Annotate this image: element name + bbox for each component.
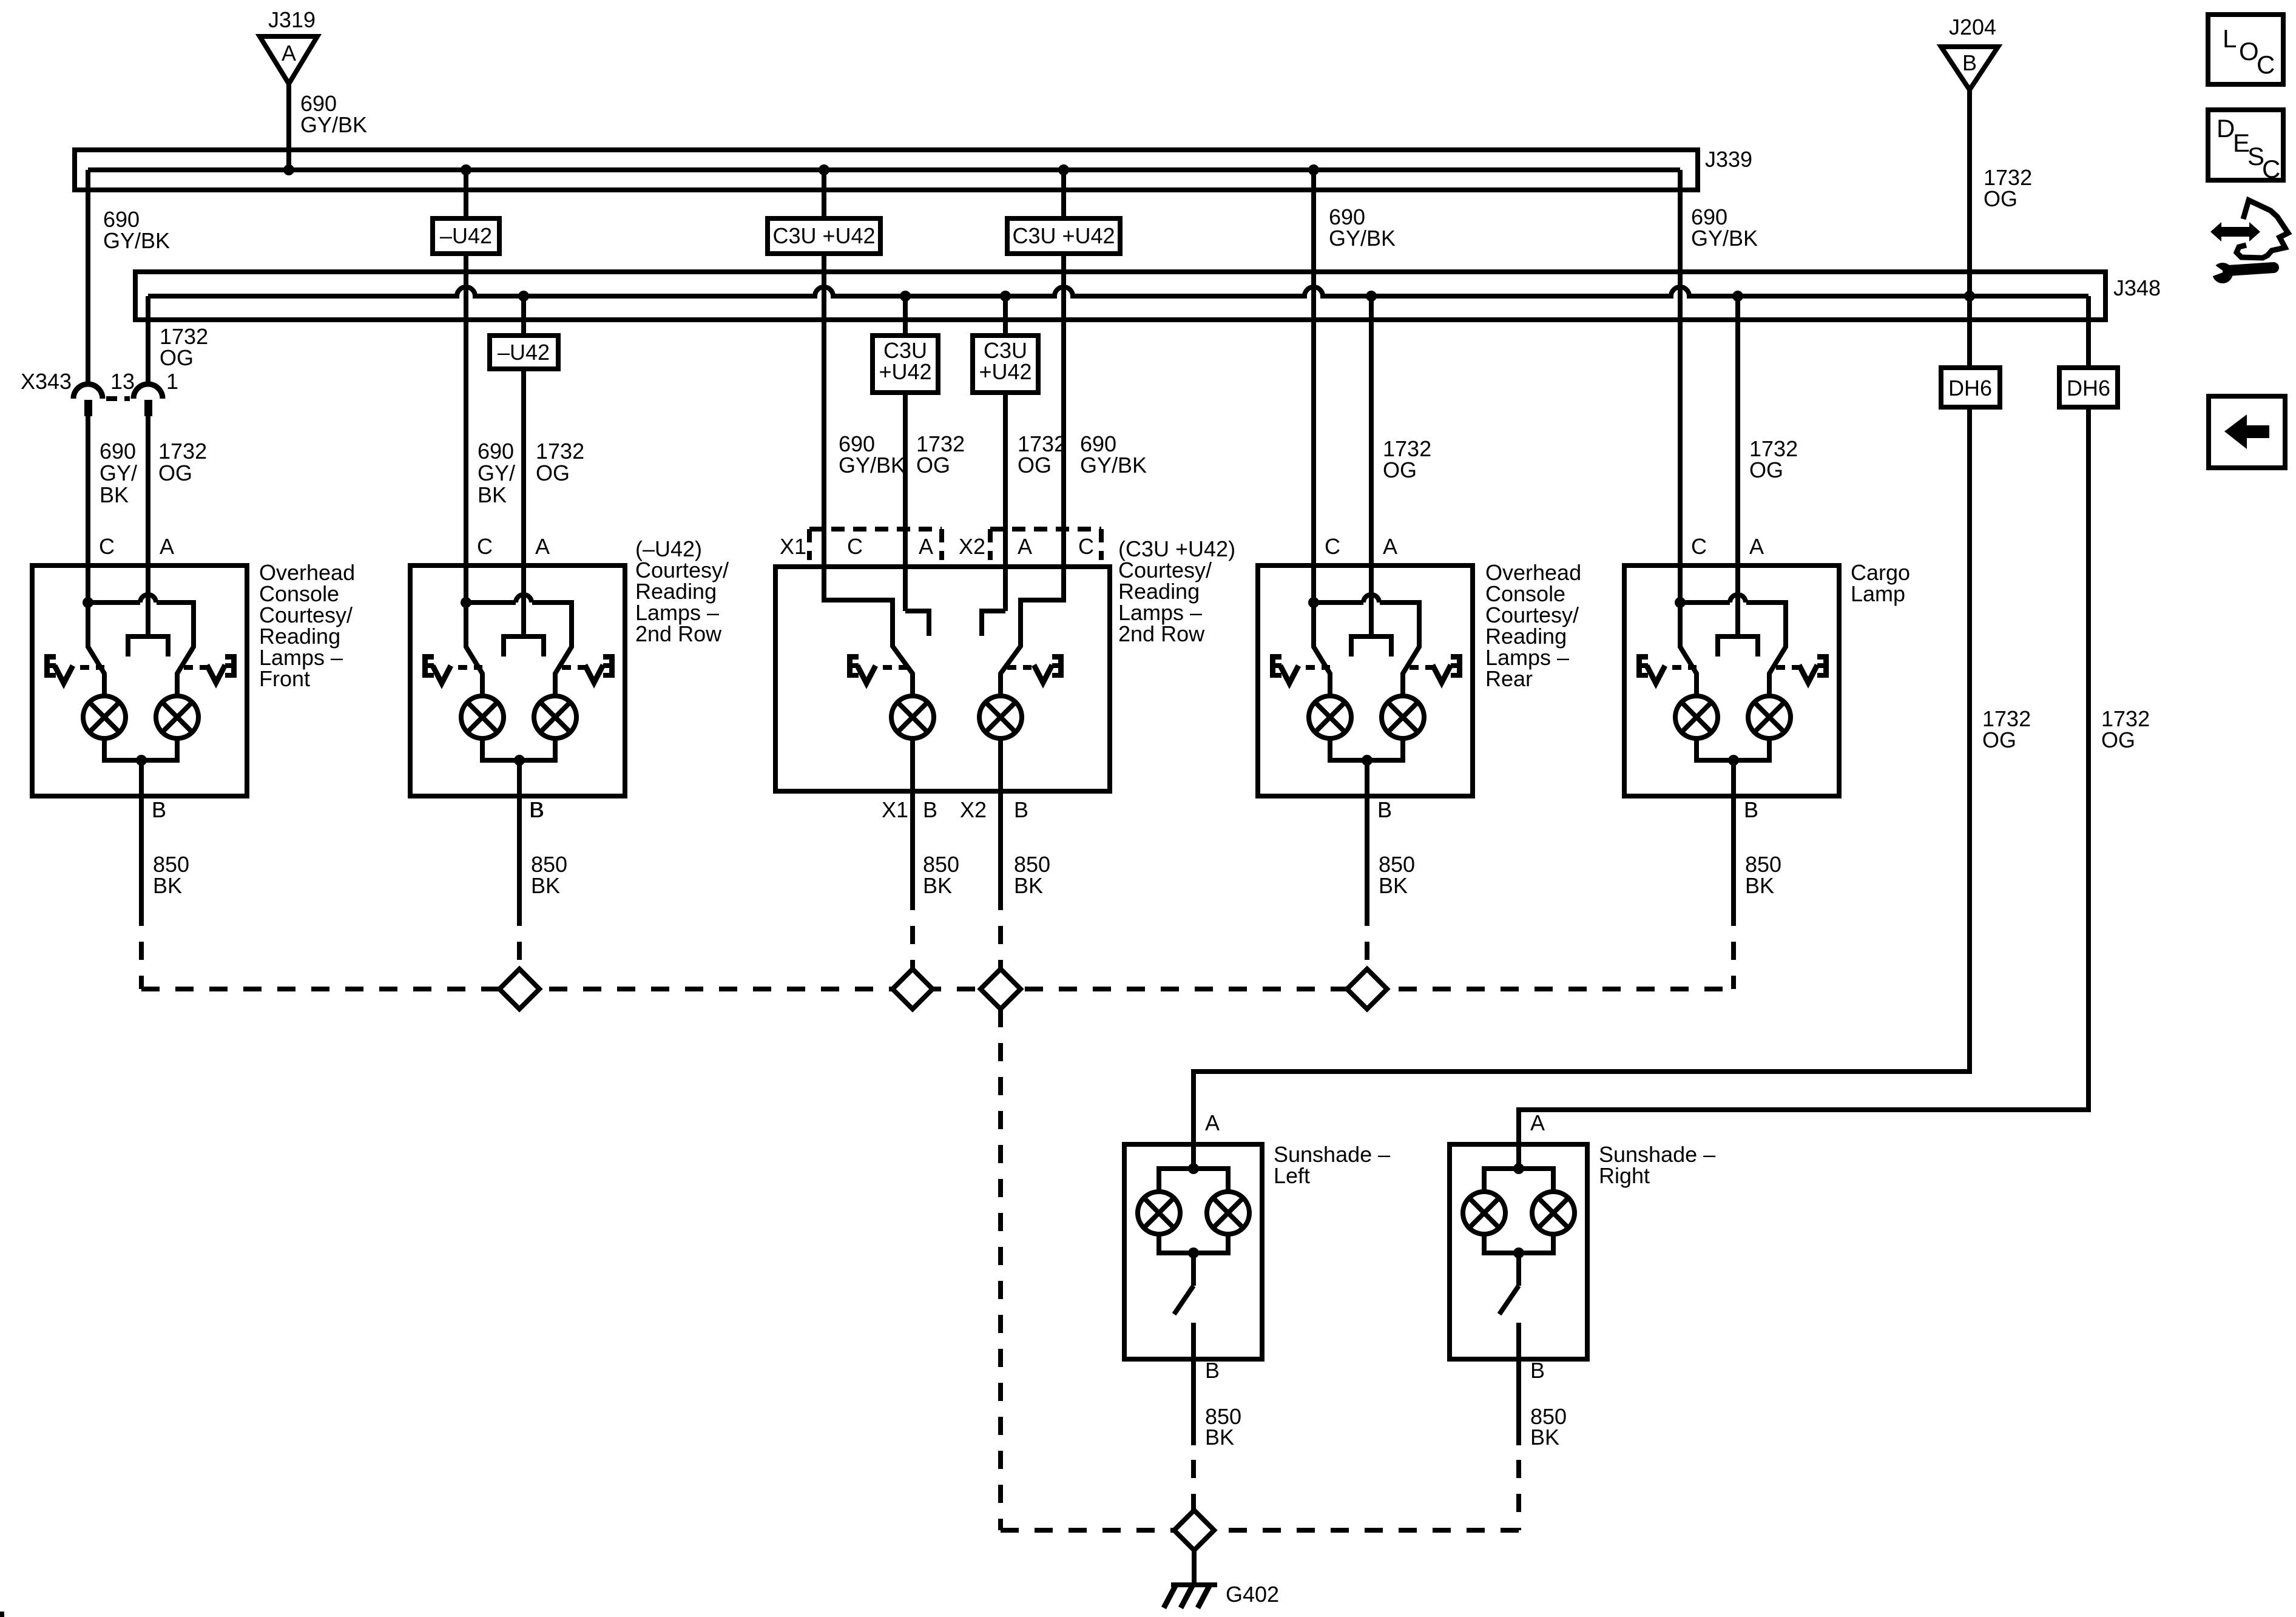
- sunshade right ground wire 850 BK: [1519, 1359, 1567, 1450]
- svg-text:BK: BK: [100, 482, 129, 507]
- svg-text:B: B: [923, 797, 937, 822]
- ground splice diamond above G402: [1174, 1510, 1214, 1550]
- cargo lamp lamp return wiring to pin B: [1697, 738, 1769, 796]
- sunshade left component box: [1124, 1144, 1262, 1359]
- svg-text:BK: BK: [531, 873, 560, 898]
- wire 1732 OG from J348 to connector X343 pin 1: [146, 296, 150, 385]
- overhead console courtesy/reading lamps rear lamp return wiring to pin B: [1330, 738, 1403, 796]
- ground wires 850 BK from X1 X2: [913, 791, 959, 898]
- sunshade left ground wire 850 BK: [1194, 1359, 1241, 1450]
- component label sunshade right: [1599, 1142, 1715, 1188]
- option label box -U42 (lower): [490, 336, 558, 369]
- svg-text:B: B: [1377, 797, 1392, 822]
- overhead console courtesy/reading lamps front right switch actuator icon: [184, 654, 237, 683]
- svg-text:DH6: DH6: [1948, 376, 1992, 400]
- courtesy/reading lamps 2nd row (-U42) internal C branch wiring: [461, 565, 572, 696]
- svg-text:A: A: [919, 534, 933, 559]
- svg-text:BK: BK: [153, 873, 182, 898]
- label J348: [2113, 275, 2161, 300]
- left actuator icon: [847, 654, 907, 683]
- junction on J348 bus at x=2864: [1732, 291, 1743, 302]
- overhead console courtesy/reading lamps rear right lamp: [1382, 696, 1424, 738]
- label J204: [1949, 15, 1996, 39]
- wire 690 GY/BK from J339 through -U42 option box to 2nd row lamp pin C: [464, 170, 468, 565]
- courtesy/reading lamps 2nd row (-U42) component box: [410, 565, 625, 796]
- svg-text:OG: OG: [1383, 457, 1417, 482]
- wire label 1732 OG (sunshade left feed): [1982, 706, 2031, 752]
- overhead console courtesy/reading lamps rear internal A feed bar: [1351, 565, 1391, 657]
- svg-text:OG: OG: [2101, 727, 2135, 752]
- overhead console courtesy/reading lamps front left switch actuator icon: [44, 654, 104, 683]
- X2 C branch wiring and switch: [1001, 567, 1064, 696]
- dashed ground drop 2nd row: [517, 908, 522, 969]
- ground splice diamond at x=1649: [981, 969, 1021, 1009]
- svg-text:OG: OG: [160, 345, 194, 370]
- svg-text:GY/BK: GY/BK: [839, 453, 905, 478]
- cargo lamp component box: [1624, 565, 1839, 796]
- svg-text:X2: X2: [959, 534, 985, 559]
- wire label 690 GY/BK (left drop): [103, 207, 170, 253]
- power feed triangle J204 (circuit B): [1941, 47, 1998, 90]
- LOC navigation icon: [2208, 15, 2283, 84]
- svg-text:BK: BK: [1379, 873, 1408, 898]
- courtesy/reading lamps 2nd row (-U42) left switch actuator icon: [422, 654, 482, 683]
- harness label box DH6 (right): [2059, 368, 2118, 407]
- wire 1732 OG from J348 through C3U +U42 option box at x=1492: [903, 296, 908, 611]
- svg-text:A: A: [282, 41, 296, 66]
- svg-text:OG: OG: [1982, 727, 2016, 752]
- cargo lamp left lamp: [1675, 696, 1718, 738]
- svg-text:Rear: Rear: [1485, 666, 1533, 691]
- dashed ground run from splice to G402 bus: [1001, 1009, 1174, 1530]
- courtesy/reading lamps 2nd row (-U42) right switch actuator icon: [562, 654, 615, 683]
- svg-text:GY/: GY/: [100, 461, 137, 485]
- svg-text:L: L: [2223, 24, 2237, 53]
- wire 1732 OG from J348 through DH6 to sunshade left: [1194, 296, 1970, 1144]
- svg-text:C: C: [847, 534, 863, 559]
- sunshade right component box: [1450, 1144, 1587, 1359]
- component label Overhead Console Courtesy/Reading Lamps - Front: [259, 560, 355, 691]
- svg-text:B: B: [1530, 1358, 1545, 1383]
- svg-text:BK: BK: [923, 873, 952, 898]
- wire label 1732 OG (2nd row drop): [536, 439, 584, 485]
- cargo lamp pin letters C A: [1691, 534, 1764, 559]
- svg-text:C: C: [2262, 155, 2280, 183]
- wire 690 GY/BK from J339 through C3U +U42 option box at x=1753: [1061, 170, 1066, 567]
- svg-text:A: A: [1749, 534, 1764, 559]
- wire 690 GY/BK from J339 to connector X343 pin 13: [86, 170, 90, 385]
- svg-text:C: C: [1078, 534, 1094, 559]
- connector labels X343 13 1: [21, 369, 178, 394]
- wire 1732 OG from J348 through C3U +U42 option box at x=1657: [1003, 296, 1008, 611]
- overhead console courtesy/reading lamps rear left lamp: [1309, 696, 1351, 738]
- svg-text:B: B: [529, 797, 544, 822]
- overhead console courtesy/reading lamps front pin letter B: [152, 797, 166, 822]
- wire 1732 OG from J348 through -U42 option box to 2nd row lamp pin A: [521, 296, 526, 565]
- wire label 1732 OG (X343 pin 1): [160, 324, 208, 370]
- svg-text:BK: BK: [1205, 1425, 1234, 1450]
- svg-text:1732: 1732: [158, 439, 207, 464]
- overhead console courtesy/reading lamps front left lamp: [83, 696, 126, 738]
- wire 1732 OG from J204 to J348: [1967, 90, 1972, 296]
- svg-text:C3U +U42: C3U +U42: [1012, 223, 1115, 248]
- X1 C branch wiring and switch: [824, 567, 913, 696]
- svg-text:A: A: [1205, 1110, 1220, 1135]
- label J319: [268, 7, 316, 32]
- svg-text:OG: OG: [1018, 453, 1052, 478]
- 2nd row lamps component box (C3U +U42): [775, 567, 1110, 791]
- svg-text:690: 690: [478, 439, 514, 464]
- wire label 690 GY/ BK (2nd row drop): [478, 439, 515, 507]
- wire 1732 OG from J348 right end through DH6 to sunshade right: [1519, 296, 2088, 1144]
- svg-text:Left: Left: [1274, 1163, 1310, 1188]
- svg-text:+U42: +U42: [979, 359, 1032, 384]
- svg-text:1732: 1732: [536, 439, 584, 464]
- junction on J348 bus at x=863: [518, 291, 529, 302]
- option label box -U42 (upper): [433, 218, 499, 254]
- svg-text:Lamp: Lamp: [1851, 581, 1905, 606]
- sunshade right left lamp: [1463, 1192, 1505, 1234]
- courtesy/reading lamps 2nd row (-U42) right lamp: [534, 696, 576, 738]
- wire 690 GY/BK X343 to lamp front pin C: [86, 416, 90, 565]
- svg-text:OG: OG: [1749, 457, 1783, 482]
- svg-text:X1: X1: [882, 797, 908, 822]
- label J339: [1705, 147, 1752, 172]
- svg-text:BK: BK: [1014, 873, 1043, 898]
- svg-text:BK: BK: [1745, 873, 1774, 898]
- svg-text:X2: X2: [960, 797, 987, 822]
- svg-text:–U42: –U42: [498, 340, 550, 365]
- component label (C3U +U42) Courtesy/Reading Lamps - 2nd Row: [1118, 536, 1235, 646]
- courtesy/reading lamps 2nd row (-U42) internal A feed bar: [504, 565, 544, 657]
- svg-text:J204: J204: [1949, 15, 1996, 39]
- svg-text:B: B: [1962, 50, 1977, 75]
- junction on J339 bus at x=768: [461, 164, 471, 175]
- wire 690 GY/BK from J339 to rear lamp pin C: [1311, 170, 1316, 565]
- ground wire 850 BK from front lamps pin B: [141, 796, 189, 908]
- option label box C3U +U42: [1007, 218, 1120, 254]
- wire 690 GY/BK from J339 right end to cargo lamp pin C: [1678, 170, 1683, 565]
- svg-text:C: C: [477, 534, 493, 559]
- svg-text:C: C: [1691, 534, 1707, 559]
- X1 A feed hook: [905, 611, 929, 636]
- svg-text:A: A: [1018, 534, 1032, 559]
- wire 690 GY/BK from J339 through C3U +U42 option box at x=1358: [822, 170, 826, 567]
- cargo lamp pin letter B: [1744, 797, 1758, 822]
- splice pack J339 outer housing: [75, 150, 1698, 190]
- svg-text:OG: OG: [158, 461, 192, 485]
- dashed connector bracket X2: [990, 529, 1101, 560]
- svg-text:X1: X1: [780, 534, 806, 559]
- component label Overhead Console Courtesy/Reading Lamps - Rear: [1485, 560, 1581, 691]
- svg-text:C: C: [99, 534, 115, 559]
- wire label 1732 OG: [158, 439, 207, 485]
- svg-text:GY/BK: GY/BK: [300, 112, 367, 137]
- splice pack J348 internal bus bar (with wire hops): [148, 287, 2088, 296]
- back arrow icon: [2209, 396, 2285, 468]
- junction on J348 bus at x=1492: [900, 291, 911, 302]
- svg-text:–U42: –U42: [440, 223, 492, 248]
- junction on J348 bus at x=2260: [1366, 291, 1377, 302]
- overhead console courtesy/reading lamps rear component box: [1258, 565, 1473, 796]
- overhead console courtesy/reading lamps rear pin letter B: [1377, 797, 1392, 822]
- dashed ground path from front lamp: [139, 908, 144, 989]
- svg-text:OG: OG: [1984, 186, 2017, 211]
- ground wire 850 BK from 2nd row lamp pin B: [519, 796, 567, 908]
- sunshade right right lamp: [1532, 1192, 1575, 1234]
- option label box C3U +U42: [768, 218, 880, 254]
- harness label box DH6 (left): [1941, 368, 2000, 407]
- overhead console courtesy/reading lamps front component box: [32, 565, 247, 796]
- svg-text:B: B: [1744, 797, 1758, 822]
- sunshade right door switch: [1499, 1286, 1519, 1359]
- sunshade left door switch: [1174, 1286, 1194, 1359]
- component label sunshade left: [1274, 1142, 1390, 1188]
- svg-text:OG: OG: [916, 453, 950, 478]
- dashed ground drops X1 X2: [913, 892, 1001, 969]
- wire label 690 GY/BK (cargo drop): [1691, 204, 1758, 251]
- option label box C3U +U42 (two line): [873, 336, 938, 393]
- svg-text:D: D: [2217, 114, 2235, 143]
- wire label 1732 OG (J204 drop): [1984, 165, 2032, 211]
- junction on J339 bus at x=1753: [1058, 164, 1069, 175]
- wire label 1732 OG (sunshade right feed): [2101, 706, 2150, 752]
- dashed ground drop sunshade right: [1214, 1460, 1519, 1530]
- X1 lamp: [891, 696, 934, 738]
- svg-text:B: B: [1205, 1358, 1220, 1383]
- junction on J348 bus at x=3246: [1964, 291, 1975, 302]
- svg-text:A: A: [535, 534, 550, 559]
- option label box C3U +U42 (two line): [973, 336, 1038, 393]
- ground splice diamond at x=2253: [1347, 969, 1387, 1009]
- courtesy/reading lamps 2nd row (-U42) pin letters C A: [477, 534, 550, 559]
- wire from J319 to splice pack J339: [286, 84, 291, 170]
- sunshade left lamp rail wiring: [1159, 1144, 1228, 1286]
- overhead console courtesy/reading lamps front right lamp: [156, 696, 198, 738]
- svg-text:B: B: [1014, 797, 1028, 822]
- X2 A feed hook: [982, 611, 1005, 636]
- svg-text:B: B: [152, 797, 166, 822]
- dashed ground bus: [141, 987, 1734, 991]
- cargo lamp left switch actuator icon: [1636, 654, 1697, 683]
- svg-text:+U42: +U42: [879, 359, 931, 384]
- ground splice diamond at x=1504: [893, 969, 933, 1009]
- svg-text:Front: Front: [259, 666, 310, 691]
- X1 lamp return to pin B: [910, 738, 915, 791]
- svg-text:J339: J339: [1705, 147, 1752, 172]
- component label (-U42) Courtesy/Reading Lamps - 2nd Row: [635, 536, 729, 646]
- ground splice diamond at x=856: [499, 969, 539, 1009]
- sunshade right pin letters: [1530, 1110, 1545, 1383]
- sunshade left pin letters: [1205, 1110, 1220, 1383]
- svg-text:A: A: [160, 534, 174, 559]
- sunshade right lamp rail wiring: [1484, 1144, 1553, 1286]
- svg-text:1: 1: [166, 369, 178, 394]
- svg-text:G402: G402: [1226, 1582, 1279, 1607]
- overhead console courtesy/reading lamps front internal A feed bar: [128, 565, 168, 657]
- svg-text:C: C: [1325, 534, 1340, 559]
- svg-text:GY/BK: GY/BK: [1080, 453, 1147, 478]
- pin letters X1 C A X2 A C: [780, 534, 1094, 559]
- overhead console courtesy/reading lamps rear right switch actuator icon: [1410, 654, 1462, 683]
- svg-text:C3U +U42: C3U +U42: [772, 223, 875, 248]
- svg-text:O: O: [2239, 37, 2259, 66]
- wire label 690 GY/BK (rear drop): [1329, 204, 1396, 251]
- overhead console courtesy/reading lamps front internal C branch wiring: [83, 565, 194, 696]
- junction on J339 bus at x=476: [283, 164, 294, 175]
- overhead console courtesy/reading lamps rear left switch actuator icon: [1270, 654, 1330, 683]
- courtesy/reading lamps 2nd row (-U42) left lamp: [461, 696, 504, 738]
- overhead console courtesy/reading lamps rear pin letters C A: [1325, 534, 1397, 559]
- svg-text:C: C: [2257, 50, 2275, 79]
- component label Cargo Lamp: [1851, 560, 1910, 606]
- ground wire 850 BK from rear lamp pin B: [1367, 796, 1415, 908]
- overhead console courtesy/reading lamps front lamp return wiring to pin B: [104, 738, 177, 796]
- wire label 1732 OG (cargo drop): [1749, 436, 1798, 482]
- overhead console courtesy/reading lamps front pin letters C A: [99, 534, 174, 559]
- wire labels middle drops: [839, 431, 905, 478]
- svg-text:GY/BK: GY/BK: [1329, 226, 1396, 251]
- svg-text:A: A: [1530, 1110, 1545, 1135]
- svg-text:DH6: DH6: [2067, 376, 2110, 400]
- wire 1732 OG X343 to lamp front pin A: [146, 416, 150, 565]
- svg-text:BK: BK: [1530, 1425, 1559, 1450]
- wire 1732 OG from J348 to cargo lamp pin A: [1735, 296, 1740, 565]
- cargo lamp right lamp: [1748, 696, 1791, 738]
- svg-text:J348: J348: [2113, 275, 2161, 300]
- svg-text:2nd Row: 2nd Row: [635, 621, 722, 646]
- svg-text:13: 13: [110, 369, 135, 394]
- svg-text:OG: OG: [536, 461, 570, 485]
- connector X343 halves: [73, 384, 163, 416]
- svg-text:X343: X343: [21, 369, 72, 394]
- courtesy/reading lamps 2nd row (-U42) pin letter B: [530, 797, 544, 822]
- courtesy/reading lamps 2nd row (-U42) lamp return wiring to pin B: [482, 738, 555, 796]
- sunshade left right lamp: [1207, 1192, 1249, 1234]
- cargo lamp internal A feed bar: [1718, 565, 1758, 657]
- wire 1732 OG from J348 to rear lamp pin A: [1369, 296, 1374, 565]
- connector-view / repair icon (double arrow, outline, wrench): [2208, 200, 2288, 283]
- svg-text:GY/BK: GY/BK: [1691, 226, 1758, 251]
- overhead console courtesy/reading lamps rear internal C branch wiring: [1308, 565, 1419, 696]
- page corner mark: [0, 1612, 4, 1617]
- svg-text:Right: Right: [1599, 1163, 1650, 1188]
- splice pack J339 internal bus bar: [88, 167, 1680, 172]
- bottom pin letters X1 B X2 B: [882, 797, 1028, 822]
- junction on J348 bus at x=1657: [1000, 291, 1011, 302]
- ground G402: [1164, 1550, 1217, 1608]
- cargo lamp internal C branch wiring: [1675, 565, 1786, 696]
- cargo lamp right switch actuator icon: [1776, 654, 1829, 683]
- svg-text:690: 690: [100, 439, 136, 464]
- label G402: [1226, 1582, 1279, 1607]
- sunshade left left lamp: [1138, 1192, 1180, 1234]
- ground wire 850 BK from cargo lamp pin B: [1734, 796, 1781, 908]
- dashed connector bracket X1: [809, 529, 942, 560]
- X2 lamp: [979, 696, 1022, 738]
- right actuator icon: [1007, 654, 1064, 683]
- svg-text:2nd Row: 2nd Row: [1118, 621, 1205, 646]
- junction on J339 bus at x=2165: [1308, 164, 1319, 175]
- svg-text:GY/BK: GY/BK: [103, 228, 170, 253]
- DESC navigation icon: [2208, 110, 2283, 183]
- wire label 1732 OG (rear drop): [1383, 436, 1431, 482]
- power feed triangle J319 (circuit A): [260, 36, 317, 84]
- svg-text:A: A: [1383, 534, 1397, 559]
- X2 lamp return to pin B: [998, 738, 1003, 791]
- splice pack J348 outer housing: [135, 272, 2105, 320]
- svg-text:BK: BK: [478, 482, 507, 507]
- wire label 690 GY/ BK: [100, 439, 137, 507]
- dashed ground drop sunshade left: [1191, 1460, 1196, 1510]
- junction on J339 bus at x=1358: [819, 164, 829, 175]
- svg-text:J319: J319: [268, 7, 316, 32]
- svg-text:GY/: GY/: [478, 461, 515, 485]
- wire label 690 GY/BK (J319 drop): [300, 91, 367, 137]
